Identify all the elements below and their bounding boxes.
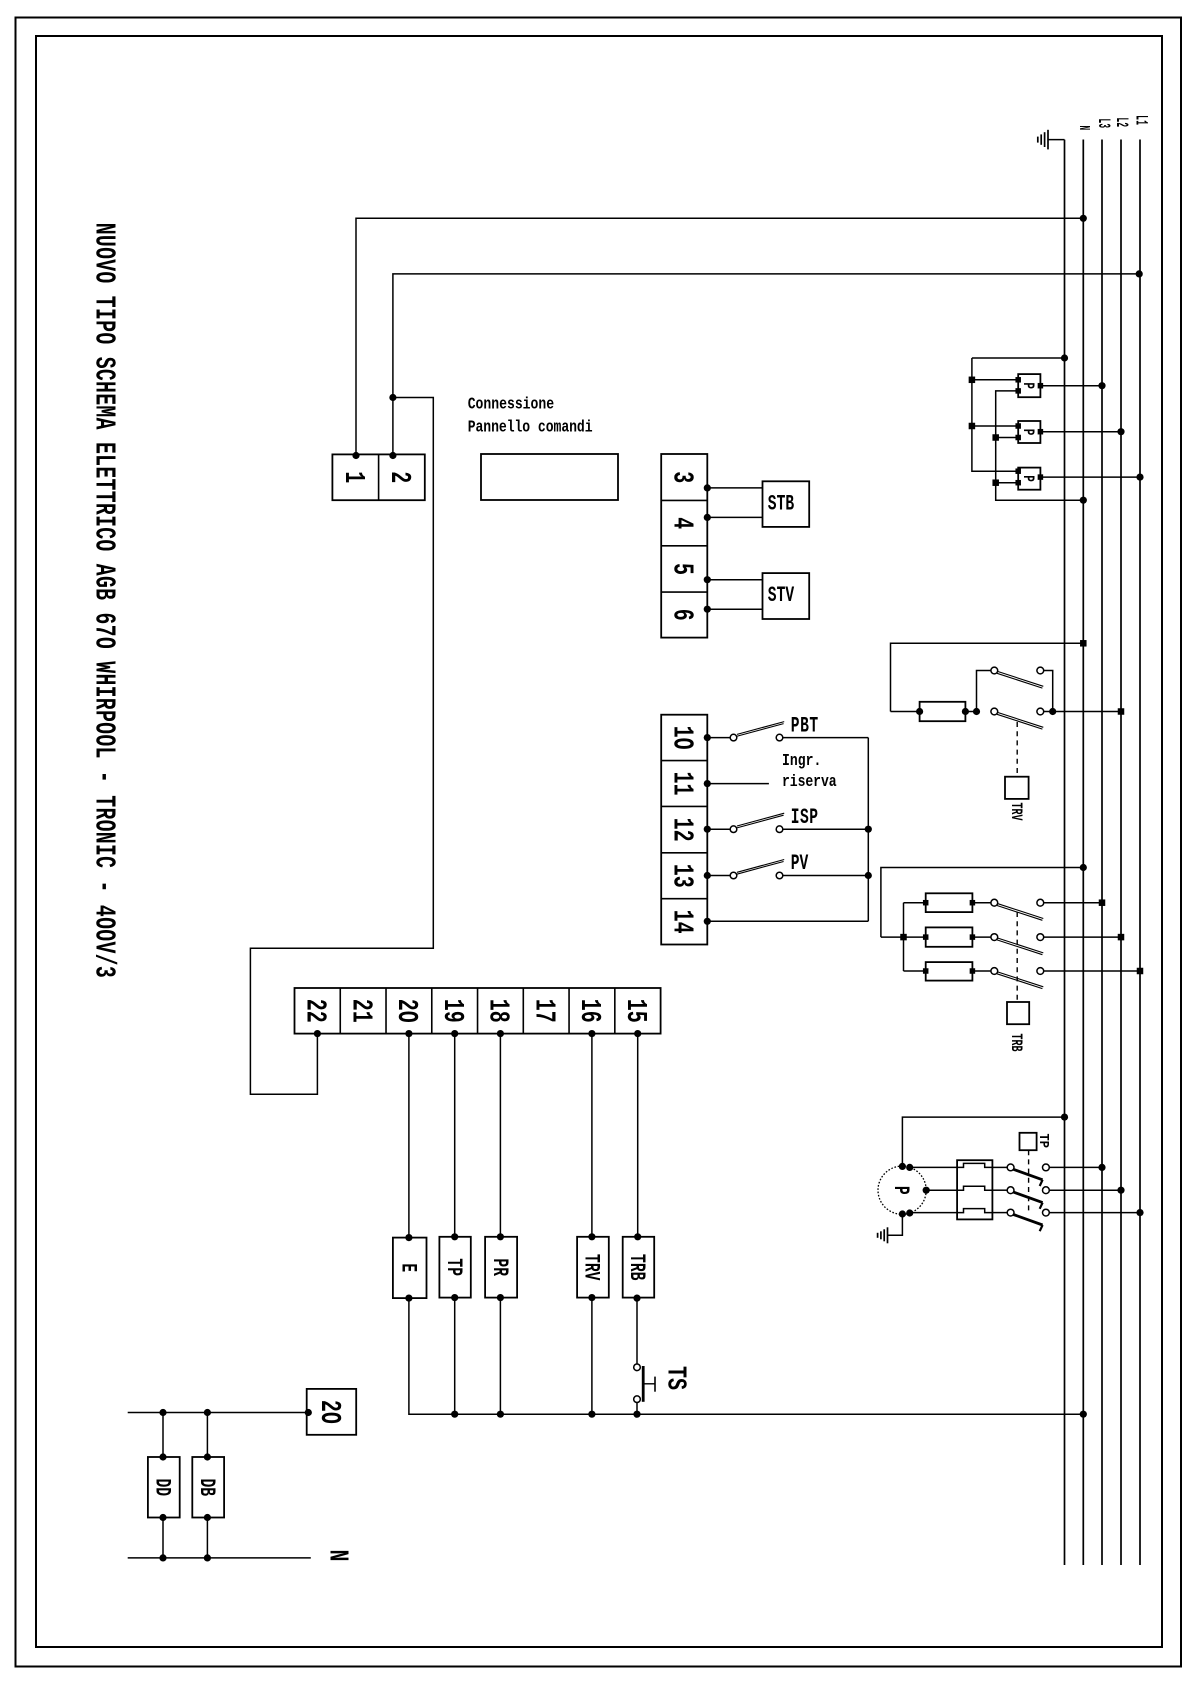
svg-text:22: 22 — [298, 999, 331, 1023]
ground symbol (top) — [1038, 130, 1065, 150]
contact TP 2 — [1007, 1187, 1049, 1209]
wire PBT to node — [783, 737, 869, 739]
svg-text:PBT: PBT — [791, 714, 818, 739]
svg-text:ISP: ISP — [791, 805, 818, 830]
wire to R3 — [904, 970, 926, 972]
contact TRB 2 — [991, 934, 1044, 955]
overload block — [957, 1160, 992, 1219]
coil TP — [439, 1237, 470, 1298]
wire motor to PE bus — [902, 1114, 1068, 1167]
svg-text:riserva: riserva — [782, 774, 837, 792]
wire N stub — [128, 1557, 311, 1559]
terminal block 1-2 — [332, 454, 424, 500]
actuator link TRV — [1016, 722, 1018, 776]
wire E to bus — [405, 1295, 1087, 1418]
svg-text:TP: TP — [441, 1258, 466, 1276]
wire 18 to PR — [497, 1030, 504, 1240]
svg-text:21: 21 — [344, 999, 377, 1023]
wire upper contact right — [1044, 671, 1053, 712]
wire stub to terminal 20 — [128, 1409, 312, 1416]
wire TRB3 to L1 — [1044, 968, 1144, 975]
wire DB to N stub — [204, 1514, 211, 1562]
svg-text:TS: TS — [659, 1366, 690, 1390]
wire 19 to TP — [451, 1030, 458, 1240]
contact TRV lower — [991, 708, 1044, 729]
wire 3 to STB — [704, 484, 763, 491]
wire coil to N — [891, 640, 1087, 711]
wire PR to bus — [497, 1294, 504, 1418]
wire TRB1 to L3 — [1044, 899, 1106, 906]
net N — [1075, 126, 1093, 1566]
diode DD — [148, 1457, 180, 1518]
svg-text:Connessione: Connessione — [468, 396, 554, 414]
wire P1 to L3 — [1040, 382, 1105, 389]
actuator TRV — [1005, 777, 1029, 799]
wire 5 to STV — [704, 576, 763, 583]
svg-text:L1: L1 — [1131, 115, 1150, 125]
device STB — [763, 481, 810, 527]
wire 6 to STV — [704, 606, 763, 613]
actuator TRB — [1007, 1002, 1029, 1024]
wire terminal2 branch to terminal22 — [250, 398, 433, 1095]
svg-text:2O: 2O — [390, 999, 423, 1023]
coil P3 — [1015, 468, 1043, 490]
wire PV to node — [783, 872, 872, 879]
wire TRB rail to N — [881, 864, 1087, 937]
wire inner rail to N — [992, 391, 1086, 504]
net L2 — [1112, 118, 1131, 1566]
wire motor ground — [888, 1214, 903, 1235]
resistor R1 — [923, 893, 991, 912]
wire terminal2 to L1 — [389, 270, 1142, 459]
svg-text:1O: 1O — [665, 726, 698, 750]
contact TRV upper — [991, 667, 1044, 688]
wire to P1 — [972, 379, 1018, 381]
ground (motor) — [878, 1227, 888, 1243]
coil PR — [485, 1237, 517, 1298]
svg-text:P: P — [1018, 382, 1035, 389]
wire TRB2 to L2 — [1044, 934, 1125, 941]
wire TS to bus — [633, 1403, 640, 1418]
wire DD to N stub — [159, 1514, 166, 1562]
actuator link TP — [1028, 1150, 1030, 1214]
wire TRV to bus — [588, 1294, 595, 1418]
svg-text:2O: 2O — [312, 1400, 345, 1424]
svg-text:4: 4 — [665, 517, 698, 529]
terminal block 10-14 — [661, 715, 707, 945]
wire motor phase 1 — [910, 1166, 957, 1168]
coil P2 — [1015, 421, 1043, 443]
wire TP1 to L3 — [1049, 1164, 1105, 1171]
svg-text:NUOVO TIPO SCHEMA ELETTRICO AG: NUOVO TIPO SCHEMA ELETTRICO AGB 67O WHIR… — [87, 223, 120, 978]
terminal block 15-22 — [295, 988, 661, 1034]
wire P3 to L1 — [1040, 474, 1143, 481]
wire rail to R2 — [881, 934, 926, 941]
wire node vertical — [867, 738, 869, 922]
actuator link TRB — [1016, 912, 1018, 1002]
svg-text:2: 2 — [383, 471, 416, 483]
svg-text:PR: PR — [487, 1258, 512, 1276]
wire motor phase 2 — [926, 1189, 957, 1191]
pushbutton TS — [634, 1364, 655, 1402]
wire branch to R1 R3 — [903, 903, 905, 971]
wire to DD — [159, 1409, 166, 1461]
wire rail to PE bus — [972, 354, 1068, 361]
wire TP to bus — [451, 1294, 458, 1418]
net L1 — [1131, 115, 1150, 1565]
svg-text:L2: L2 — [1112, 118, 1131, 128]
svg-text:DB: DB — [194, 1479, 219, 1497]
resistor R2 — [923, 927, 991, 946]
svg-text:1: 1 — [336, 471, 369, 483]
coil E — [393, 1238, 427, 1299]
wire 4 to STB — [704, 514, 763, 521]
label Ingr. riserva — [782, 753, 837, 791]
wire block to contacts 3 — [992, 1212, 1007, 1214]
wire coil to contacts — [965, 671, 991, 716]
svg-text:14: 14 — [665, 910, 698, 934]
contact TRB 1 — [991, 899, 1044, 920]
svg-text:PV: PV — [791, 851, 809, 876]
svg-text:TRV: TRV — [579, 1254, 604, 1281]
wire P3 lower pin — [996, 482, 1019, 484]
terminal block 3-6 — [661, 454, 707, 638]
svg-text:E: E — [395, 1263, 420, 1272]
connector box (pannello comandi) — [481, 454, 618, 500]
wire to R1 — [904, 902, 926, 904]
wire block to contacts 1 — [992, 1166, 1007, 1168]
contact TP 1 — [1007, 1164, 1049, 1186]
svg-text:19: 19 — [436, 999, 469, 1023]
svg-text:Ingr.: Ingr. — [782, 753, 821, 771]
wire left rail — [969, 358, 1019, 471]
wire terminal1 to N — [352, 215, 1087, 459]
diode DB — [192, 1457, 224, 1518]
svg-text:P: P — [888, 1186, 913, 1195]
switch PBT — [704, 722, 785, 742]
svg-text:STB: STB — [768, 492, 794, 517]
wire 20 to E — [405, 1030, 412, 1241]
wire ingresso riserva (11) — [704, 780, 769, 787]
wire to P2 — [972, 425, 1018, 427]
svg-text:13: 13 — [665, 864, 698, 888]
wire TP3 to L1 — [1049, 1209, 1143, 1216]
coil P1 — [1015, 374, 1043, 397]
svg-text:TP: TP — [1036, 1134, 1052, 1149]
svg-text:15: 15 — [619, 999, 652, 1023]
switch ISP — [704, 813, 785, 833]
contact TP 3 — [1007, 1209, 1049, 1231]
svg-text:16: 16 — [573, 999, 606, 1023]
svg-text:12: 12 — [665, 818, 698, 842]
svg-text:STV: STV — [768, 583, 795, 608]
coil (TRV circuit) — [891, 702, 970, 721]
svg-text:5: 5 — [665, 563, 698, 575]
svg-text:18: 18 — [481, 999, 514, 1023]
wire ISP to node — [783, 826, 872, 833]
svg-text:11: 11 — [665, 772, 698, 796]
terminal 20 — [307, 1389, 357, 1435]
resistor R3 — [923, 962, 991, 981]
svg-text:N: N — [1075, 126, 1093, 131]
wire 16 to TRV — [588, 1030, 595, 1240]
wire P2 to L2 — [1040, 428, 1124, 435]
coil TRV — [577, 1237, 609, 1298]
svg-text:17: 17 — [527, 999, 560, 1023]
svg-text:P: P — [1018, 429, 1035, 436]
wire TP2 to L2 — [1049, 1187, 1124, 1194]
wire 14 to node — [704, 918, 869, 925]
svg-text:TRB: TRB — [1007, 1034, 1025, 1052]
label Connessione Pannello comandi — [468, 396, 593, 437]
wire motor phase 3 — [910, 1212, 957, 1214]
motor P — [878, 1163, 930, 1218]
wire to DB — [204, 1409, 211, 1461]
device STV — [763, 573, 810, 619]
svg-text:N: N — [321, 1550, 352, 1562]
actuator TP — [1020, 1133, 1037, 1150]
svg-text:3: 3 — [665, 471, 698, 483]
net L3 — [1094, 119, 1113, 1566]
svg-text:TRB: TRB — [624, 1254, 649, 1280]
svg-text:Pannello comandi: Pannello comandi — [468, 419, 593, 437]
svg-text:6: 6 — [665, 609, 698, 621]
switch PV — [704, 860, 785, 880]
svg-text:TRV: TRV — [1007, 803, 1025, 821]
svg-text:DD: DD — [149, 1479, 174, 1497]
wire contacts to L2 — [1044, 708, 1125, 715]
coil TRB — [623, 1237, 655, 1298]
wire TRB to TS — [633, 1295, 640, 1365]
svg-text:P: P — [1018, 475, 1035, 482]
wire 15 to TRB — [634, 1030, 641, 1240]
wire block to contacts 2 — [992, 1189, 1007, 1191]
contact TRB 3 — [991, 968, 1044, 989]
net PE (earth bus) — [1064, 140, 1066, 1565]
wire P2 lower pin — [996, 437, 1019, 439]
svg-text:L3: L3 — [1094, 119, 1113, 129]
